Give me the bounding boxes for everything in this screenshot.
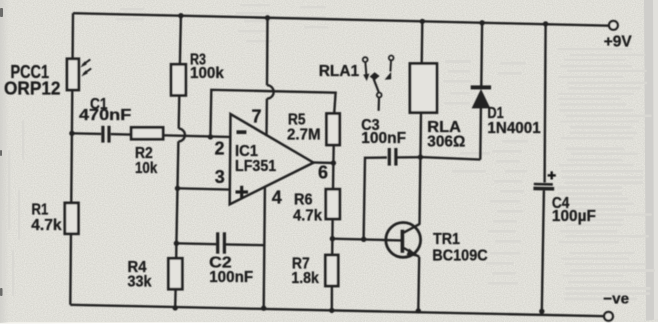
svg-text:3: 3 [215,167,225,187]
svg-text:RLA1: RLA1 [319,63,360,80]
svg-text:4.7k: 4.7k [293,208,322,225]
svg-text:2: 2 [215,138,225,158]
svg-text:1.8k: 1.8k [291,270,319,287]
svg-text:10k: 10k [135,160,157,177]
svg-text:+9V: +9V [604,34,632,51]
svg-text:7: 7 [252,106,262,126]
svg-text:TR1: TR1 [433,231,460,248]
svg-text:4: 4 [272,188,282,208]
svg-text:R6: R6 [294,192,313,209]
svg-text:33k: 33k [128,274,152,291]
svg-text:100µF: 100µF [552,208,596,225]
svg-text:1N4001: 1N4001 [487,120,540,137]
svg-text:−ve: −ve [603,291,629,308]
svg-text:ORP12: ORP12 [4,78,61,98]
svg-text:2.7M: 2.7M [287,126,321,143]
svg-text:BC109C: BC109C [432,247,488,264]
svg-text:4.7k: 4.7k [31,217,61,234]
svg-text:100nF: 100nF [361,130,406,147]
svg-text:6: 6 [318,163,328,183]
svg-text:100nF: 100nF [209,269,253,286]
svg-text:306Ω: 306Ω [427,133,465,150]
svg-text:100k: 100k [190,65,224,82]
svg-text:LF351: LF351 [235,158,276,175]
svg-text:470nF: 470nF [79,107,132,124]
